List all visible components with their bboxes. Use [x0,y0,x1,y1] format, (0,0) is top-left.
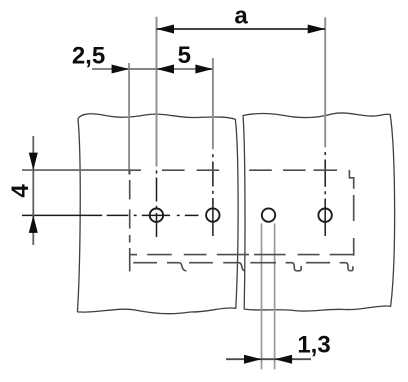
svg-text:1,3: 1,3 [297,332,330,359]
svg-text:4: 4 [7,184,34,198]
svg-text:5: 5 [178,42,191,69]
svg-text:2,5: 2,5 [72,42,105,69]
svg-text:a: a [234,3,248,30]
